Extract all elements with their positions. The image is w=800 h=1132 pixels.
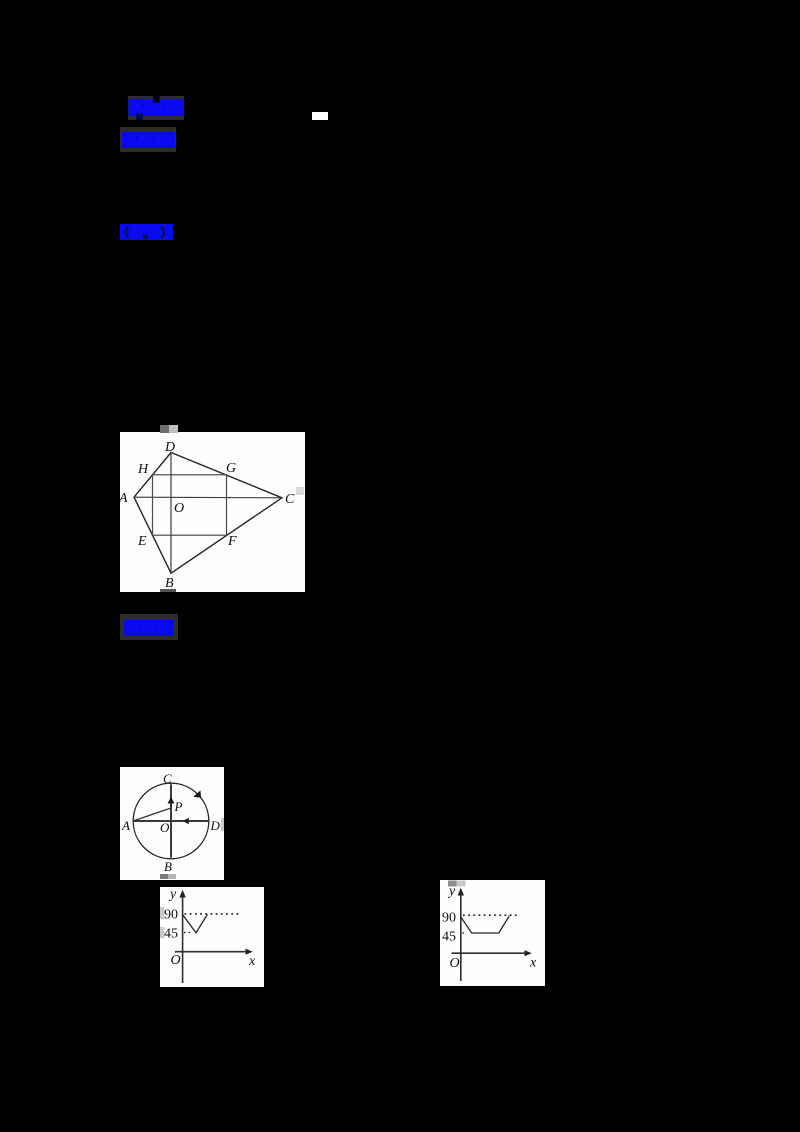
svg-text:90: 90 bbox=[442, 911, 456, 926]
svg-text:A: A bbox=[121, 818, 130, 833]
svg-text:45: 45 bbox=[442, 930, 456, 945]
svg-text:G: G bbox=[226, 461, 236, 476]
svg-text:x: x bbox=[248, 954, 256, 969]
svg-text:C: C bbox=[285, 492, 295, 507]
svg-text:O: O bbox=[171, 953, 181, 968]
svg-text:C: C bbox=[163, 771, 172, 786]
svg-text:90: 90 bbox=[164, 908, 178, 923]
svg-text:x: x bbox=[529, 956, 537, 971]
svg-text:O: O bbox=[160, 820, 170, 835]
svg-text:A: A bbox=[120, 491, 128, 506]
svg-text:P: P bbox=[174, 799, 183, 814]
svg-text:E: E bbox=[137, 534, 147, 549]
svg-text:H: H bbox=[137, 462, 149, 477]
svg-text:y: y bbox=[168, 887, 177, 902]
svg-text:O: O bbox=[174, 501, 184, 516]
svg-text:D: D bbox=[164, 440, 175, 455]
svg-text:O: O bbox=[450, 956, 460, 971]
svg-text:D: D bbox=[210, 818, 221, 833]
svg-text:45: 45 bbox=[164, 927, 178, 942]
svg-text:F: F bbox=[227, 534, 237, 549]
svg-text:B: B bbox=[164, 859, 172, 874]
